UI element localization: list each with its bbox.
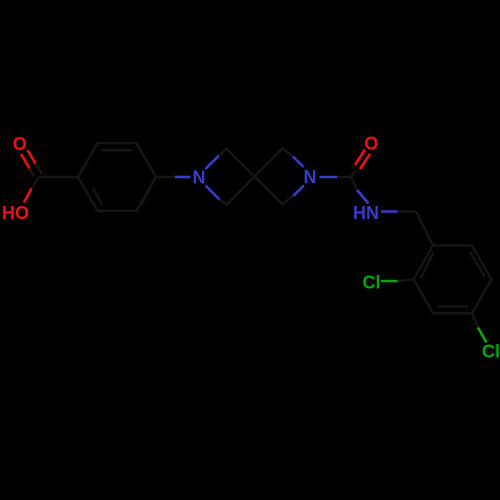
wire: azetidine2 dark halves top: [255, 149, 294, 177]
wire: ring2 aromatic inner lines: [421, 252, 486, 306]
bond C-OH, O half: [24, 189, 32, 203]
bond Cl2-ring2, Cl half: [478, 328, 487, 343]
bond N1-C_bot1, N half: [206, 186, 220, 200]
svg-text:Cl: Cl: [482, 342, 500, 362]
wire: dark stubs of acid C=O double bond: [30, 164, 43, 178]
wire: dark half of N2-C_amide bond: [337, 176, 351, 178]
bond C_amide-N3, N half: [357, 190, 369, 204]
wire: bond C_acid to ring1: [39, 176, 78, 178]
bond C=O double (amide), O half: [355, 150, 370, 170]
wire: dark half of N3-CH2 bond: [398, 210, 417, 212]
wire: azetidine2 dark halves bottom: [255, 177, 294, 205]
wire: azetidine1 dark halves to top carbon: [219, 149, 255, 177]
wire: dark half of Cl2 bond: [472, 313, 478, 327]
bond Cl1-ring2, Cl half: [381, 280, 398, 283]
svg-text:Cl: Cl: [363, 273, 381, 293]
svg-text:HO: HO: [2, 203, 29, 223]
bond N2-C_bot2, N half: [293, 186, 304, 197]
bond C=O double (acid), O half: [21, 150, 36, 169]
bond ring1-N1, N half: [175, 176, 191, 179]
bond N3-CH2, N half: [381, 210, 398, 213]
wire: azetidine1 dark halves to bottom carbon: [220, 177, 255, 205]
wire: dark half of C_amide-N3 bond: [351, 177, 357, 190]
bond N2-C_amide, N half: [320, 176, 338, 179]
wire: bond CH2 to ring2: [416, 212, 433, 246]
wire: ring1 aromatic inner lines: [93, 150, 150, 205]
bond N1-C_top1, N half: [205, 156, 219, 170]
svg-text:N: N: [193, 168, 206, 188]
svg-text:O: O: [13, 134, 27, 154]
wire: benzene ring 2 (dichlorophenyl): [414, 246, 492, 314]
svg-text:N: N: [304, 167, 317, 187]
svg-text:O: O: [364, 134, 378, 154]
wire: dark half of ring1-N1 bond: [156, 176, 177, 178]
wire: benzene ring 1 (benzoic acid ring): [78, 143, 156, 211]
wire: dark half of Cl1 bond: [398, 279, 414, 281]
wire: dark half of C-OH bond: [32, 177, 40, 189]
wire: dark stubs of amide C=O: [351, 171, 355, 177]
bond N2-C_top2, N half: [293, 157, 304, 168]
svg-text:HN: HN: [353, 203, 379, 223]
